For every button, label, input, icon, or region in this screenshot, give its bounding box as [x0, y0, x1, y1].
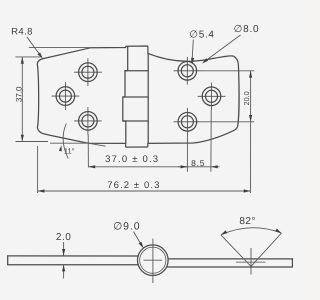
- 8.5 dim line: [187, 166, 211, 168]
- right leaf bar top: [168, 258, 292, 260]
- svg-text:∅8.0: ∅8.0: [234, 24, 260, 35]
- 37.0 left top arrowhead: [21, 57, 24, 64]
- dia 9.0 arrowhead: [139, 242, 144, 249]
- knuckle left edge staircase: [123, 47, 128, 144]
- 82 deg arc: [221, 228, 282, 235]
- left bar end cap: [7, 256, 9, 265]
- svg-text:37.0: 37.0: [14, 86, 23, 102]
- 37.0 left dim line: [21, 57, 23, 141]
- 20.0 bottom arrowhead: [249, 115, 252, 122]
- extension line hole column 88: [87, 134, 89, 167]
- svg-text:R4.8: R4.8: [11, 26, 33, 37]
- extension line hole column 211: [210, 110, 212, 172]
- left leaf bar bottom: [8, 264, 139, 266]
- dia 8.0 leader line: [203, 35, 240, 62]
- dia 9.0 leader line: [134, 232, 143, 247]
- extension line hole column 187: [186, 135, 188, 172]
- 76.2 left arrowhead: [38, 189, 45, 192]
- 8.5 right arrow tail: [211, 166, 220, 168]
- left leaf bar top: [8, 255, 139, 257]
- svg-text:11°: 11°: [64, 146, 75, 155]
- hole R3 bottom-right leaf: [174, 108, 201, 135]
- hole L3 bottom-left leaf: [74, 107, 101, 134]
- R4.8 leader line: [27, 37, 42, 57]
- knuckle divider 3: [123, 120, 148, 122]
- 2.0 dim upper line: [63, 242, 65, 256]
- barrel horizontal crosshair: [144, 259, 163, 261]
- arrowheads: [21, 52, 253, 192]
- 76.2 right arrowhead: [244, 189, 251, 192]
- 76.2 +-0.3 dim line: [38, 190, 251, 192]
- 37.0 dim right arrowhead / 8.5 left: [181, 165, 188, 168]
- knuckle right vertical: [147, 53, 149, 143]
- 20.0 dim extension bottom: [201, 121, 254, 123]
- 37.0 left bottom arrowhead: [21, 135, 24, 142]
- right bar end cap: [291, 259, 293, 267]
- svg-text:20.0: 20.0: [242, 91, 251, 105]
- svg-text:82°: 82°: [239, 216, 256, 227]
- 76.2 dim extension left: [37, 146, 39, 193]
- 82 deg right arrowhead: [275, 229, 281, 234]
- barrel vertical centerline: [152, 239, 154, 283]
- dia 5.4 arrowhead: [191, 58, 194, 65]
- R4.8 arrowhead: [38, 52, 43, 58]
- 11 deg top reference line: [29, 46, 91, 48]
- hole R2 middle-right leaf: [198, 83, 225, 110]
- 8.5 left arrow tail: [178, 166, 187, 168]
- dia 8.0 arrowhead: [202, 58, 208, 63]
- hole L2 middle-left leaf: [52, 83, 79, 110]
- fold line under fan: [236, 261, 265, 263]
- knuckle divider 2: [123, 96, 148, 98]
- svg-text:76.2 ± 0.3: 76.2 ± 0.3: [107, 180, 160, 191]
- svg-text:2.0: 2.0: [56, 232, 71, 243]
- 11 deg bottom reference line: [50, 142, 88, 144]
- 82 deg fan right line: [251, 233, 282, 266]
- svg-text:∅5.4: ∅5.4: [189, 30, 214, 41]
- 20.0 dim extension top: [201, 70, 254, 72]
- 37.0 left dim extension top: [16, 56, 41, 58]
- barrel circle: [138, 245, 169, 276]
- 76.2 dim extension right: [250, 122, 252, 193]
- 37.0 +-0.3 dim line: [88, 166, 187, 168]
- 20.0 top arrowhead: [249, 71, 252, 78]
- knuckle divider 1: [125, 70, 148, 72]
- 2.0 dim lower line: [63, 265, 65, 279]
- 11 deg slanted extension line: [88, 143, 105, 146]
- dia 5.4 leader line: [192, 40, 193, 63]
- svg-text:8.5: 8.5: [191, 158, 205, 168]
- barrel inner wall: [140, 247, 166, 273]
- 82 deg fan left line: [221, 235, 251, 267]
- 37.0 left dim extension bottom: [16, 141, 49, 143]
- 11 deg angle arc: [63, 124, 68, 159]
- hole R1 top-right leaf: [174, 57, 201, 84]
- dimension and leader linework: [16, 35, 255, 193]
- 8.5 right arrowhead: [211, 165, 218, 168]
- svg-text:37.0 ± 0.3: 37.0 ± 0.3: [105, 154, 159, 165]
- 2.0 top arrowhead: [62, 249, 65, 256]
- 11 deg arc bottom arrowhead: [59, 145, 62, 151]
- svg-text:∅9.0: ∅9.0: [113, 221, 140, 233]
- hole L1 top-left leaf: [74, 59, 101, 86]
- fan vertex centerline: [250, 248, 252, 275]
- right leaf bar bottom: [167, 266, 293, 268]
- hinge plan view outline: [37, 46, 239, 147]
- 82 deg left arrowhead: [221, 230, 227, 235]
- 20.0 dim line: [250, 71, 252, 122]
- 2.0 bottom arrowhead: [62, 265, 65, 272]
- 37.0 dim left arrowhead: [88, 165, 95, 168]
